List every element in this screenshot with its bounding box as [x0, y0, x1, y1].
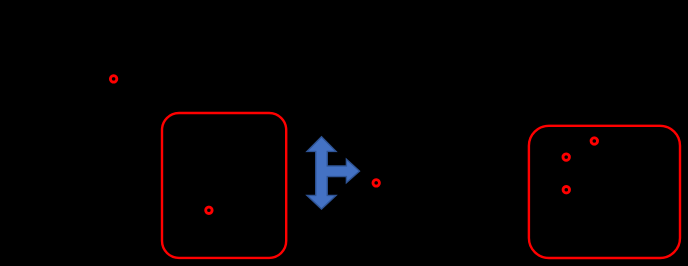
node C marker: red circle on wire right of arrow	[373, 180, 379, 186]
node F marker: red circle on lower pin inside right box	[563, 187, 569, 193]
component highlight box (left): red rounded rectangle around component	[162, 113, 286, 258]
node D marker: red circle on top pin inside right box	[591, 138, 597, 144]
node A marker: red circle on upper-left wire junction	[110, 76, 116, 82]
component highlight box (right): red rounded rectangle around moved component	[529, 126, 680, 258]
node E marker: red circle on middle pin inside right box	[563, 154, 569, 160]
move cursor icon: blue up/down/right arrow	[307, 137, 360, 209]
node B marker: red circle on component pin inside left box	[206, 207, 212, 213]
